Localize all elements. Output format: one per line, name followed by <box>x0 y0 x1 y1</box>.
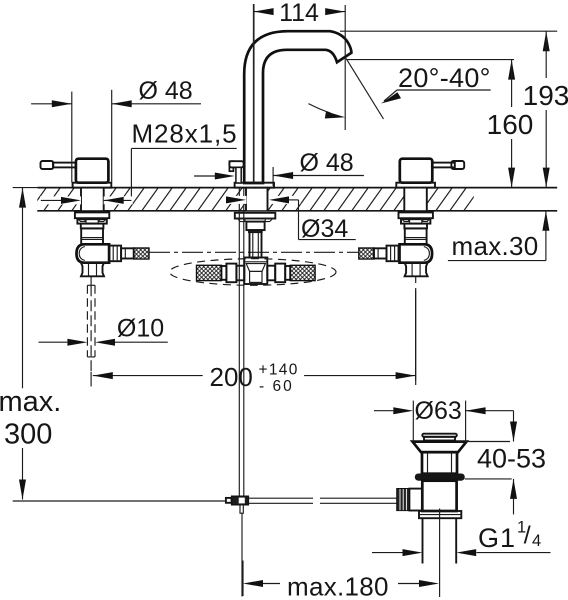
svg-text:193: 193 <box>523 80 568 111</box>
svg-text:20°-40°: 20°-40° <box>398 63 491 93</box>
svg-text:Ø34: Ø34 <box>301 215 348 243</box>
rod centerline below coupling <box>241 513 243 596</box>
left valve hidden lift-rod (dashed) <box>87 277 95 387</box>
svg-text:160: 160 <box>487 109 534 140</box>
horizontal actuating rod to drain <box>248 498 396 503</box>
dimension 40-53 (right of drain) <box>458 411 546 515</box>
lift rod from spout to coupling <box>239 188 244 497</box>
svg-text:Ø 48: Ø 48 <box>300 149 354 177</box>
tee right braided hose <box>290 265 315 280</box>
svg-text:40-53: 40-53 <box>477 444 546 474</box>
left handle base flange <box>73 183 112 188</box>
dimension max.180 (bottom) <box>243 561 439 600</box>
countertop deck hatching <box>30 188 480 211</box>
svg-text:114: 114 <box>279 0 319 27</box>
drain lower body <box>409 481 456 511</box>
svg-text:Ø63: Ø63 <box>415 397 462 425</box>
left valve outlet fittings (hex nut + nipple) <box>109 246 134 262</box>
svg-text:/: / <box>524 522 531 550</box>
extension line at spout top (193) <box>340 30 557 32</box>
spout body (high arc tube) <box>244 31 351 183</box>
tee left braided hose <box>197 265 222 280</box>
spout shank white-out through deck <box>246 188 268 211</box>
left valve swivel nut below elbow <box>81 263 104 277</box>
dimension 160 (right) <box>487 60 534 188</box>
label M28x1,5 (left valve thread) <box>40 119 238 205</box>
svg-text:G1: G1 <box>478 523 516 553</box>
extension line at spout outlet (160) <box>347 59 515 61</box>
dimension 114 (top) <box>254 0 346 130</box>
lift-rod knob above spout base <box>229 161 243 183</box>
svg-text:Ø10: Ø10 <box>117 315 164 343</box>
dimension Ø63 (drain flange) <box>374 397 514 442</box>
tee right hose fitting <box>267 264 290 283</box>
svg-text:max.180: max.180 <box>287 572 389 600</box>
deck top line (with left extension for max.300) <box>13 187 558 189</box>
spout base plate <box>235 183 274 188</box>
dimension Ø10 (lift rod) <box>39 315 168 346</box>
drain pop-up cap <box>422 434 457 441</box>
spout swivel arc arrow <box>309 104 346 119</box>
dimension 193 (right) <box>523 31 568 187</box>
right valve centerline down to 200-dimension <box>415 277 417 386</box>
right valve below deck <box>399 212 433 262</box>
dimension Ø48 (spout base) <box>194 149 364 186</box>
svg-text:Ø 48: Ø 48 <box>139 77 193 105</box>
svg-text:max.: max. <box>0 386 61 418</box>
drain tailpipe G1 1/4 <box>423 518 457 563</box>
angle dimension 20°-40° <box>346 58 491 119</box>
left valve shank through deck <box>81 188 104 211</box>
drain upper body <box>422 452 457 474</box>
right valve shank through deck <box>404 188 427 211</box>
dimension 200 +140/-60 <box>93 290 416 395</box>
tee left hose fitting <box>221 264 244 283</box>
hose centerline (chain line between valves) <box>149 251 359 253</box>
left handle body <box>76 159 109 183</box>
dimension max.30 (right of deck) <box>448 211 550 261</box>
drain seal washer band <box>419 511 461 518</box>
svg-text:4: 4 <box>532 532 541 550</box>
dimension max. 300 (left) <box>0 188 226 501</box>
svg-text:max.30: max.30 <box>452 231 539 261</box>
svg-text:200: 200 <box>210 362 253 392</box>
detail ellipse (dashed) around tee <box>170 259 336 286</box>
right handle base flange <box>396 183 435 188</box>
left handle lever <box>41 161 76 169</box>
svg-text:+140: +140 <box>259 362 299 379</box>
right handle lever <box>432 161 464 169</box>
drain O-ring <box>415 474 465 481</box>
dimension Ø34 (spout shank) <box>226 196 356 243</box>
svg-text:300: 300 <box>4 419 52 451</box>
right valve swivel nut below elbow <box>405 263 428 277</box>
drain centerline <box>439 509 441 598</box>
dimension Ø48 (left handle) <box>31 77 201 183</box>
under-deck spout stack <box>235 213 275 258</box>
drain flange (cone) <box>413 442 467 453</box>
tee connector under spout <box>244 258 267 285</box>
svg-text:M28x1,5: M28x1,5 <box>132 119 238 149</box>
right handle body <box>400 159 433 183</box>
right braided hose stub <box>359 248 374 259</box>
drain knurled knob <box>397 489 410 511</box>
left valve below deck <box>75 212 109 262</box>
rod coupling block <box>226 496 249 513</box>
right valve outlet fittings (hex nut + nipple) <box>374 246 399 262</box>
spout centerline <box>253 4 255 182</box>
label G1 1/4 (drain thread) <box>372 519 551 557</box>
deck bottom line <box>37 210 557 212</box>
left braided hose stub <box>134 248 149 259</box>
svg-text:- 60: - 60 <box>259 378 294 395</box>
